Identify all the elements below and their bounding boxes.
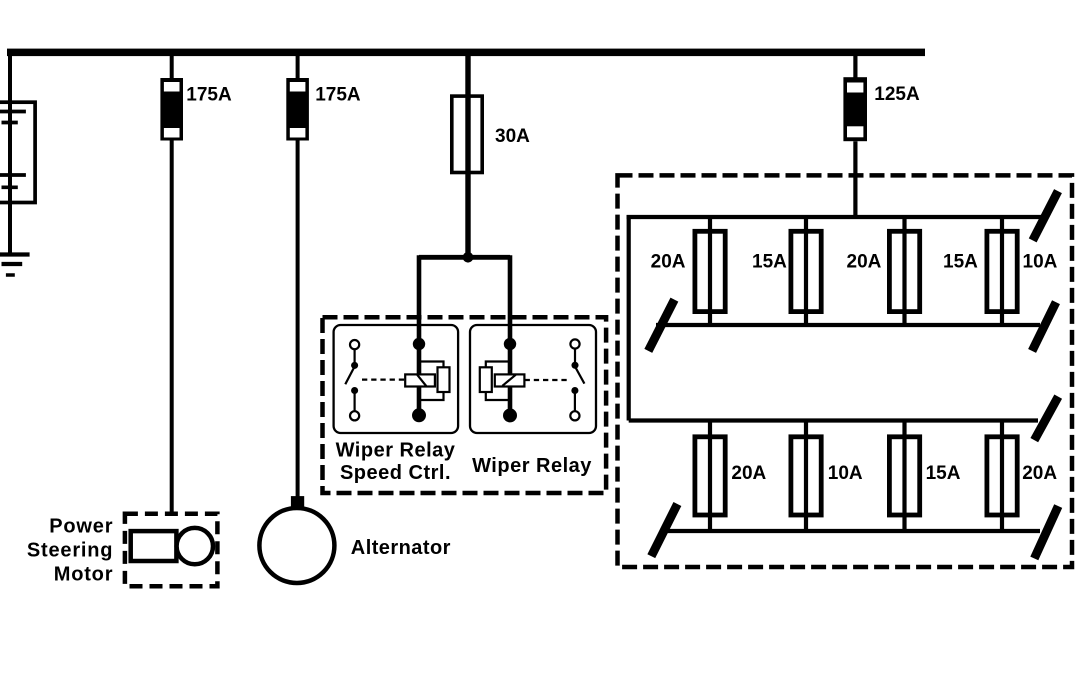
svg-text:10A: 10A bbox=[828, 463, 863, 484]
svg-text:Wiper Relay: Wiper Relay bbox=[472, 455, 592, 477]
svg-text:Steering: Steering bbox=[27, 539, 113, 561]
svg-text:125A: 125A bbox=[874, 84, 920, 105]
svg-text:20A: 20A bbox=[731, 463, 766, 484]
svg-text:Wiper Relay: Wiper Relay bbox=[336, 440, 456, 462]
svg-text:Power: Power bbox=[49, 515, 113, 537]
svg-text:10A: 10A bbox=[1023, 251, 1058, 272]
svg-text:175A: 175A bbox=[315, 84, 361, 105]
svg-text:Motor: Motor bbox=[54, 564, 114, 586]
svg-text:15A: 15A bbox=[943, 251, 978, 272]
svg-text:Alternator: Alternator bbox=[351, 537, 451, 559]
svg-text:15A: 15A bbox=[752, 251, 787, 272]
svg-text:20A: 20A bbox=[651, 251, 686, 272]
svg-text:20A: 20A bbox=[1022, 463, 1057, 484]
svg-text:30A: 30A bbox=[495, 126, 530, 147]
svg-text:15A: 15A bbox=[926, 463, 961, 484]
svg-text:Speed Ctrl.: Speed Ctrl. bbox=[340, 462, 451, 484]
svg-text:20A: 20A bbox=[847, 251, 882, 272]
svg-text:175A: 175A bbox=[186, 84, 232, 105]
